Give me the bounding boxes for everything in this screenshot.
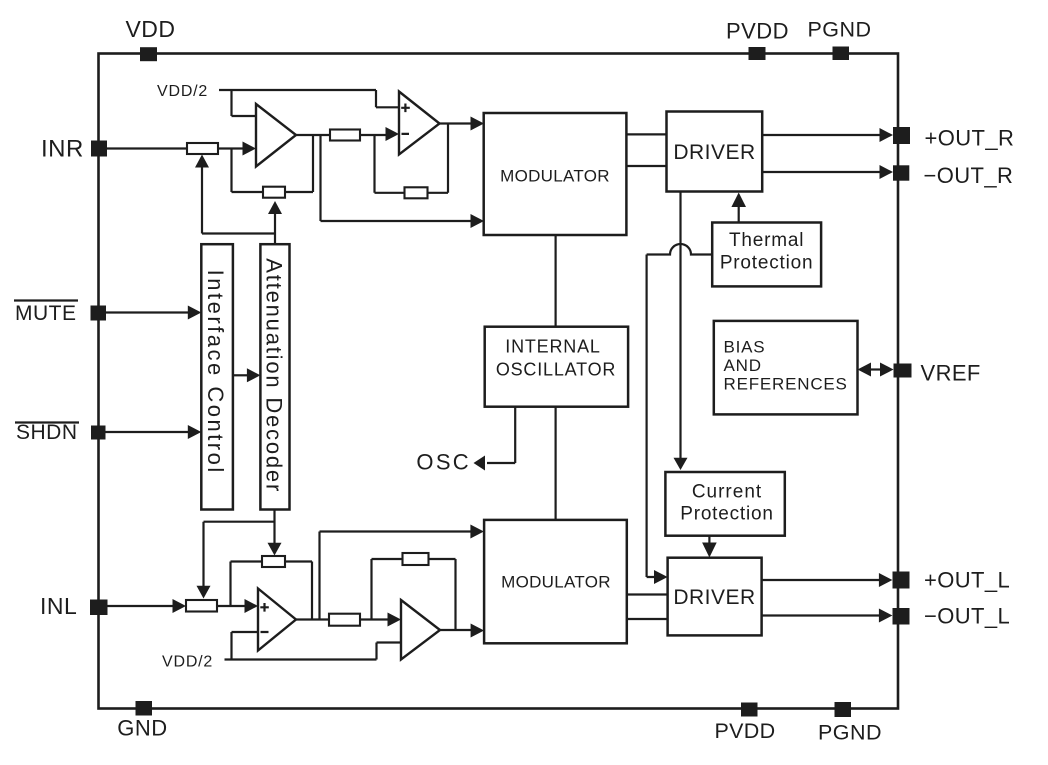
pin SHDN <box>15 421 106 444</box>
svg-text:MUTE: MUTE <box>15 302 77 325</box>
op-amp U4 <box>401 600 440 660</box>
chip boundary <box>99 54 899 709</box>
wire driver down to current protection <box>679 192 681 459</box>
svg-text:VREF: VREF <box>921 361 981 386</box>
wire U4 output to modulator <box>440 629 471 631</box>
pin -OUT_L <box>893 604 1011 629</box>
pin INR <box>41 136 107 163</box>
wire R7 to U4 <box>360 618 388 620</box>
wire R3 to U2 <box>360 134 386 136</box>
svg-text:DRIVER: DRIVER <box>673 586 755 609</box>
wire VDD/2 to U3 and U4 <box>225 632 402 660</box>
resistor R3 (series R) <box>330 130 360 141</box>
wire INR to R1 <box>107 147 187 149</box>
block DRIVER (right channel) <box>667 112 763 192</box>
svg-text:PGND: PGND <box>807 18 871 42</box>
svg-text:Thermal: Thermal <box>729 230 804 251</box>
wire attenuation decoder to R5 <box>204 522 275 586</box>
pin PGND bottom <box>818 702 882 745</box>
svg-text:Protection: Protection <box>720 253 814 274</box>
svg-text:VDD: VDD <box>125 16 175 42</box>
wire modulator to driver (R) <box>626 134 666 166</box>
svg-text:OSCILLATOR: OSCILLATOR <box>496 360 616 380</box>
pin -OUT_R <box>893 163 1013 188</box>
resistor R2 (feedback R) <box>263 187 285 198</box>
pin MUTE <box>14 301 106 326</box>
wire U1 output <box>296 134 330 136</box>
wire driver to -OUT_R <box>762 171 880 173</box>
wire bypass to modulator L input 1 <box>320 532 471 620</box>
pin GND <box>117 701 167 741</box>
wire MUTE to interface control <box>106 311 188 313</box>
svg-text:VDD/2: VDD/2 <box>162 654 213 671</box>
svg-text:OSC: OSC <box>416 450 471 475</box>
pin +OUT_L <box>893 568 1011 593</box>
wire attenuation decoder to R6 <box>273 510 275 544</box>
svg-text:INR: INR <box>41 136 84 163</box>
wire driver to -OUT_L <box>762 614 880 616</box>
block Interface Control <box>201 244 233 509</box>
wire VDD/2 to op-amps <box>219 90 399 116</box>
wire R1 to U1 <box>218 147 244 149</box>
wire interface control to attenuation decoder <box>233 374 247 376</box>
block DRIVER (left channel) <box>668 558 762 636</box>
svg-text:−OUT_R: −OUT_R <box>924 163 1014 188</box>
block MODULATOR (left channel) <box>484 520 627 643</box>
svg-text:BIAS: BIAS <box>724 338 766 357</box>
wire INL to R5 <box>107 605 173 607</box>
svg-text:AND: AND <box>724 356 762 375</box>
svg-text:Current: Current <box>692 482 762 503</box>
svg-text:Attenuation Decoder: Attenuation Decoder <box>262 258 287 493</box>
wire U1 feedback <box>232 135 314 192</box>
wire current protection to driver L <box>708 536 710 543</box>
op-amp U1 <box>256 104 296 167</box>
wire modulator to driver (L) <box>627 595 668 620</box>
svg-text:GND: GND <box>117 716 167 741</box>
block Attenuation Decoder <box>260 244 289 509</box>
resistor R5 (input R) <box>186 600 217 612</box>
op-amp U3 <box>258 589 296 651</box>
wire U4 feedback <box>372 559 456 630</box>
block BIAS AND REFERENCES <box>714 321 858 415</box>
block INTERNAL OSCILLATOR <box>485 327 628 407</box>
wire driver to +OUT_L <box>762 579 880 581</box>
wire thermal protection to lower driver (with hop) <box>647 244 713 577</box>
svg-text:MODULATOR: MODULATOR <box>500 166 610 185</box>
svg-text:Interface Control: Interface Control <box>203 270 228 475</box>
svg-text:+OUT_R: +OUT_R <box>925 126 1015 151</box>
svg-text:INL: INL <box>40 593 77 619</box>
wire bypass to modulator input 2 <box>321 135 472 221</box>
pin INL <box>40 593 108 619</box>
svg-text:SHDN: SHDN <box>16 421 78 444</box>
block Thermal Protection <box>712 223 821 287</box>
resistor R8 (feedback R) <box>403 553 429 565</box>
op-amp U2 <box>399 92 440 155</box>
wire U2 output to modulator <box>440 122 472 124</box>
resistor R7 (series R) <box>329 614 360 626</box>
svg-text:PVDD: PVDD <box>726 19 789 44</box>
wire oscillator to modulator L <box>554 407 556 520</box>
svg-text:−OUT_L: −OUT_L <box>924 604 1010 629</box>
pin +OUT_R <box>893 126 1014 151</box>
resistor R6 (feedback R) <box>262 556 285 567</box>
svg-text:DRIVER: DRIVER <box>673 141 755 164</box>
pin PVDD bottom <box>715 703 776 744</box>
svg-text:PVDD: PVDD <box>715 719 776 743</box>
block MODULATOR (right channel) <box>484 113 627 235</box>
svg-text:MODULATOR: MODULATOR <box>501 573 611 592</box>
pin PVDD top <box>726 19 789 61</box>
wire oscillator to OSC <box>487 407 515 463</box>
wire driver to +OUT_R <box>762 134 880 136</box>
svg-text:PGND: PGND <box>818 721 882 745</box>
resistor R4 (feedback R) <box>405 187 428 198</box>
svg-text:Protection: Protection <box>680 504 774 525</box>
wire U3 output <box>296 618 329 620</box>
wire SHDN to interface control <box>106 431 189 433</box>
resistor R1 (input R) <box>187 143 218 154</box>
wire U2 feedback <box>375 124 449 193</box>
wire modulator R to oscillator <box>554 235 556 327</box>
svg-text:VDD/2: VDD/2 <box>157 83 208 100</box>
pin VDD <box>125 16 175 61</box>
wire bias to VREF (double arrow) <box>869 368 882 370</box>
svg-text:INTERNAL: INTERNAL <box>505 337 600 357</box>
wire gain control to R1 <box>201 167 203 234</box>
svg-text:REFERENCES: REFERENCES <box>724 375 848 394</box>
pin PGND top <box>807 18 871 61</box>
block Current Protection <box>665 472 784 536</box>
pin VREF <box>894 361 981 386</box>
wire thermal protection to driver <box>738 206 740 223</box>
wire R5 to U3 <box>217 605 245 607</box>
wire gain control to R2 <box>202 214 275 245</box>
svg-text:+OUT_L: +OUT_L <box>924 568 1010 593</box>
wire U3 feedback <box>231 562 313 620</box>
